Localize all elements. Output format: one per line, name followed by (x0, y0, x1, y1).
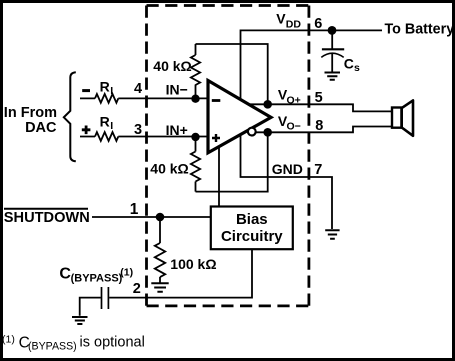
svg-text:8: 8 (315, 118, 323, 134)
ground (CBYPASS) (72, 317, 88, 324)
svg-text:40 kΩ: 40 kΩ (153, 58, 191, 74)
inversion bubble (248, 128, 256, 136)
svg-text:DAC: DAC (25, 120, 57, 136)
svg-text:(BYPASS): (BYPASS) (28, 340, 77, 352)
svg-text:C: C (59, 266, 71, 283)
capacitor CS (321, 30, 344, 71)
svg-text:To Battery: To Battery (385, 22, 455, 38)
wire VO+ output (250, 104, 392, 111)
svg-text:5: 5 (315, 90, 323, 106)
op-amp plus marker (212, 134, 220, 142)
svg-text:SHUTDOWN: SHUTDOWN (4, 210, 90, 226)
resistor 40k bottom (195, 137, 197, 192)
ground (GND pin) (325, 230, 339, 239)
svg-text:(1): (1) (120, 266, 133, 278)
resistor RI top (95, 94, 118, 103)
svg-text:In From: In From (4, 105, 57, 121)
brace input (64, 72, 76, 161)
svg-text:Circuitry: Circuitry (221, 228, 283, 245)
polarity plus (82, 126, 91, 135)
svg-text:(1): (1) (2, 334, 15, 346)
svg-text:1: 1 (130, 201, 139, 218)
junction node IN+ (191, 133, 199, 141)
svg-text:GND: GND (272, 161, 303, 177)
op-amp A1 (208, 81, 271, 153)
op-amp minus marker (212, 99, 221, 102)
wire VDD rail (241, 30, 383, 100)
resistor RI bottom (95, 132, 118, 141)
wire GND pin7 (241, 135, 333, 230)
svg-text:Bias: Bias (236, 211, 268, 228)
resistor 100k (159, 217, 161, 283)
speaker LS1 (392, 108, 402, 128)
svg-text:I: I (110, 120, 113, 132)
polarity minus (82, 89, 90, 92)
junction node VDD (328, 26, 337, 35)
junction node VO+ (263, 100, 272, 109)
wire feedback top (196, 44, 268, 104)
svg-text:4: 4 (134, 81, 142, 97)
wire VO- output (256, 127, 393, 133)
svg-text:DD: DD (286, 18, 302, 30)
wire pin3 input (80, 136, 207, 138)
svg-text:7: 7 (314, 162, 322, 178)
svg-text:6: 6 (314, 16, 322, 32)
ground (CS) (325, 73, 341, 80)
svg-text:R: R (100, 114, 110, 130)
junction node shutdown (156, 213, 165, 222)
svg-text:s: s (354, 62, 360, 74)
svg-text:2: 2 (133, 281, 141, 297)
resistor 40k top (195, 44, 197, 99)
capacitor CBYPASS (80, 287, 109, 316)
svg-text:O+: O+ (287, 94, 301, 106)
junction node IN- (191, 95, 199, 103)
svg-text:100 kΩ: 100 kΩ (170, 256, 216, 272)
wire pin4 input (80, 97, 207, 99)
svg-text:is optional: is optional (80, 334, 145, 350)
svg-text:V: V (276, 11, 286, 27)
svg-text:3: 3 (134, 122, 142, 138)
wire bias bottom / pin2 (109, 249, 252, 298)
svg-text:R: R (100, 79, 110, 95)
svg-text:40 kΩ: 40 kΩ (150, 161, 188, 177)
svg-text:IN+: IN+ (166, 122, 188, 138)
wire shutdown pin1 (92, 216, 211, 218)
wire feedback bottom (196, 132, 268, 191)
svg-text:(BYPASS): (BYPASS) (71, 272, 123, 284)
svg-text:IN−: IN− (166, 82, 188, 98)
svg-text:O−: O− (287, 121, 301, 133)
wire bias top (218, 147, 220, 207)
ground (100k) (151, 283, 168, 292)
svg-text:C: C (344, 55, 354, 71)
junction node VO- (263, 128, 272, 137)
svg-text:I: I (110, 85, 113, 97)
Bias Circuitry block (211, 207, 293, 250)
IC dashed boundary U1 (147, 6, 309, 306)
